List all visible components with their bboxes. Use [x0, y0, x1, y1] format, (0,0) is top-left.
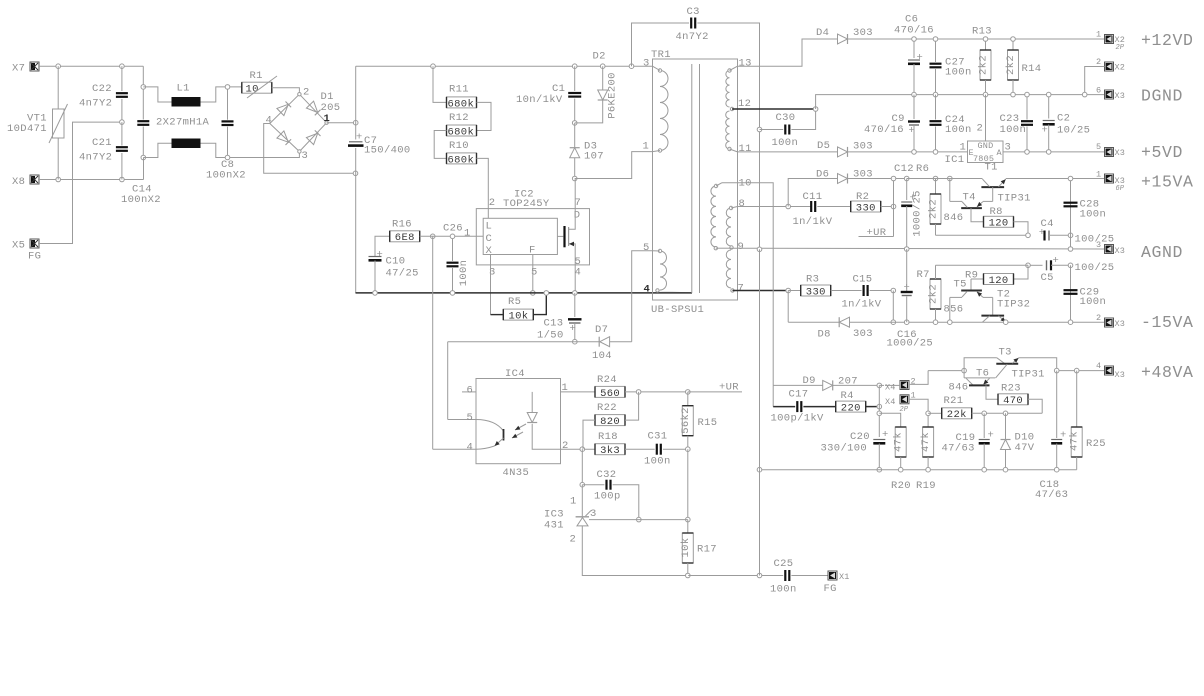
svg-text:C5: C5 — [1041, 272, 1054, 284]
svg-text:5: 5 — [531, 266, 538, 278]
node C6 bottom — [912, 92, 917, 97]
node C27 top — [933, 37, 938, 42]
svg-text:3: 3 — [1096, 240, 1101, 250]
TR1 secondary 13-12 — [726, 58, 752, 111]
svg-text:C31: C31 — [648, 431, 668, 443]
diode D4 — [816, 27, 873, 44]
svg-text:6E8: 6E8 — [395, 232, 415, 244]
connector X3 pin1 +15VA — [1096, 170, 1194, 194]
IC4 pin5 label — [467, 412, 474, 424]
diode D5 — [817, 140, 873, 157]
svg-text:47k: 47k — [893, 432, 905, 452]
node C15 out — [891, 288, 896, 324]
resistor R6 — [928, 194, 942, 235]
wire D4 to +12V rail — [848, 38, 1105, 40]
T4 emitter to R8 — [971, 208, 984, 222]
svg-text:X4: X4 — [885, 397, 896, 407]
wire R10 to IC2 pin2 — [477, 158, 489, 208]
capacitor C29 — [1064, 287, 1107, 309]
svg-text:X3: X3 — [1115, 370, 1126, 380]
T3 base vertical — [996, 364, 1008, 378]
capacitor C15 — [831, 274, 894, 311]
connector X2 pin1 +12VD — [1096, 30, 1194, 53]
svg-text:1: 1 — [1096, 170, 1101, 180]
optocoupler IC4 box — [476, 368, 561, 479]
diode D3 — [570, 123, 604, 179]
diode D9 — [773, 375, 879, 390]
wire D8 bypass — [788, 291, 839, 323]
svg-text:R17: R17 — [697, 544, 717, 556]
wire TR1 pin4 to return (dark) — [658, 291, 693, 293]
bottom rail — [688, 573, 783, 578]
svg-text:8: 8 — [739, 198, 746, 210]
svg-text:C2: C2 — [1057, 113, 1070, 125]
wire R23 out — [1028, 399, 1042, 413]
resistor R15 — [680, 392, 718, 452]
node R13 top — [983, 37, 988, 42]
capacitor C22 — [79, 66, 128, 122]
node R4 out — [877, 404, 882, 409]
svg-text:1: 1 — [464, 228, 471, 240]
node HV rail R11 — [431, 64, 436, 69]
svg-text:5: 5 — [467, 412, 474, 424]
svg-text:47/25: 47/25 — [386, 268, 419, 280]
svg-text:100n: 100n — [644, 456, 671, 468]
svg-text:AGND: AGND — [1141, 243, 1183, 262]
wire D6 bypass — [788, 179, 837, 207]
wire X7 to filter — [39, 65, 143, 67]
48V ground rail — [757, 467, 1076, 472]
svg-text:820: 820 — [600, 416, 620, 428]
wire X5 to C22/C21 midpoint — [38, 122, 122, 243]
resistor R16 — [375, 219, 420, 257]
svg-text:D9: D9 — [803, 375, 816, 387]
svg-text:R21: R21 — [944, 395, 964, 407]
AGND vertical lower — [759, 249, 761, 575]
HV top rail — [356, 65, 653, 67]
regulator IC1 7805 — [945, 95, 1012, 166]
inductor L1 upper winding — [172, 97, 201, 107]
svg-text:C30: C30 — [776, 112, 796, 124]
label L1 — [156, 83, 210, 129]
DGND rail from pin12 — [816, 95, 1105, 109]
svg-text:100n: 100n — [1080, 296, 1107, 308]
svg-text:47/63: 47/63 — [1035, 489, 1068, 501]
svg-text:X8: X8 — [12, 176, 25, 188]
svg-text:R8: R8 — [990, 206, 1003, 218]
node C26 top — [450, 234, 455, 239]
capacitor C23 — [1000, 92, 1034, 154]
svg-text:GND: GND — [978, 141, 994, 151]
svg-text:220: 220 — [841, 403, 861, 415]
svg-text:856: 856 — [944, 304, 964, 316]
capacitor C2 — [1042, 92, 1091, 154]
IC2 pin X stub — [490, 255, 492, 315]
IC2 pin2 stub inside — [487, 209, 489, 219]
svg-text:R25: R25 — [1086, 438, 1106, 450]
svg-text:4n7Y2: 4n7Y2 — [79, 98, 112, 110]
transistor T4 846 — [944, 179, 993, 225]
diode D8 — [818, 317, 873, 340]
svg-text:1n/1kV: 1n/1kV — [793, 216, 833, 228]
IC3 ref wire — [589, 519, 688, 521]
wire R6 to C4 node — [936, 234, 1029, 236]
connector X3 pin5 +5VD — [1096, 142, 1183, 162]
transistor T3 TIP31 — [964, 347, 1057, 381]
svg-text:+15VA: +15VA — [1141, 173, 1194, 192]
wire R2 out — [881, 176, 896, 209]
svg-text:+UR: +UR — [719, 382, 739, 394]
svg-text:X3: X3 — [1115, 319, 1126, 329]
svg-text:100nX2: 100nX2 — [121, 194, 161, 206]
connector X1 FG — [824, 571, 850, 595]
vertical D9 node — [878, 385, 880, 437]
svg-text:C26: C26 — [443, 223, 463, 235]
node C4 right — [1068, 233, 1073, 238]
svg-text:10n/1kV: 10n/1kV — [516, 94, 563, 106]
IC4 phototransistor — [476, 420, 504, 450]
T6 emitter to R23 — [986, 385, 998, 399]
capacitor C3 — [632, 6, 760, 130]
svg-text:100n: 100n — [772, 137, 799, 149]
wire IC4 pin5 link — [448, 342, 575, 420]
svg-text:X7: X7 — [12, 63, 25, 75]
svg-text:6P: 6P — [1116, 185, 1125, 193]
resistor R11 — [433, 66, 477, 110]
svg-text:R1: R1 — [250, 70, 263, 82]
svg-text:2k2: 2k2 — [978, 55, 990, 75]
wire L1 lower to bridge — [201, 143, 300, 157]
svg-text:104: 104 — [592, 350, 612, 362]
node AGND C12 — [904, 247, 909, 286]
svg-text:846: 846 — [949, 382, 969, 394]
svg-text:470/16: 470/16 — [894, 25, 934, 37]
svg-text:T5: T5 — [954, 279, 967, 291]
node C12 top — [904, 176, 909, 181]
IC2 pin5/4 source stub — [574, 257, 576, 293]
svg-text:+: + — [1042, 125, 1049, 137]
svg-text:100n: 100n — [945, 124, 972, 136]
svg-text:3: 3 — [643, 58, 650, 70]
svg-text:R15: R15 — [698, 417, 718, 429]
svg-text:D8: D8 — [818, 329, 831, 341]
wire C14 top to L1 upper — [143, 87, 171, 102]
net label +UR flag — [859, 207, 894, 240]
wire R8 to C4 — [1014, 222, 1031, 238]
resistor R14 — [1005, 39, 1041, 95]
svg-text:100/25: 100/25 — [1075, 262, 1115, 274]
+48 rail left — [928, 368, 966, 373]
svg-text:+: + — [988, 430, 995, 442]
TR1 secondary 9-7 — [726, 241, 744, 295]
capacitor C14 — [121, 66, 161, 206]
wire drain to TR1 pin1 — [575, 152, 653, 179]
svg-text:R20: R20 — [891, 480, 911, 492]
wire L1 upper to R1 — [201, 87, 242, 102]
svg-text:R24: R24 — [597, 374, 617, 386]
resistor R12 link — [477, 102, 492, 130]
svg-text:120: 120 — [989, 218, 1009, 230]
IC4 led arrows — [512, 424, 526, 438]
svg-text:100n: 100n — [1080, 209, 1107, 221]
wire TR1 pin12 (dark) — [732, 107, 818, 112]
capacitor C1 — [516, 66, 581, 123]
resistor R23 — [998, 383, 1028, 408]
svg-text:2: 2 — [489, 197, 496, 209]
svg-text:47V: 47V — [1015, 442, 1035, 454]
transistor T2 TIP32 — [981, 289, 1030, 323]
svg-text:100nX2: 100nX2 — [206, 170, 246, 182]
svg-text:X3: X3 — [1115, 246, 1126, 256]
inductor L1 lower winding — [172, 139, 201, 149]
node C6 top — [912, 37, 917, 42]
svg-text:11: 11 — [739, 143, 752, 155]
svg-text:10k: 10k — [680, 538, 692, 558]
resistor R18 — [595, 431, 625, 457]
node AGND common vertical — [757, 247, 762, 252]
svg-text:4: 4 — [1096, 361, 1101, 371]
svg-text:10D471: 10D471 — [7, 123, 47, 135]
wire bridge pin1 to HV rail — [327, 120, 358, 125]
svg-text:107: 107 — [584, 151, 604, 163]
resistor R9 — [965, 265, 1028, 287]
node on X7 wire at VT1 — [56, 64, 61, 69]
resistor R5 — [491, 291, 549, 323]
svg-text:330: 330 — [806, 286, 826, 298]
capacitor C4 — [1039, 218, 1115, 246]
capacitor C32 — [580, 449, 641, 522]
capacitor C21 — [79, 122, 128, 179]
svg-text:1000/25: 1000/25 — [912, 190, 924, 237]
svg-text:D4: D4 — [816, 27, 829, 39]
svg-text:150/400: 150/400 — [364, 145, 411, 157]
wire pinC down to opto — [432, 236, 434, 449]
svg-text:T1: T1 — [985, 162, 998, 174]
node on X8 wire at VT1 — [56, 177, 61, 182]
svg-text:R10: R10 — [449, 140, 469, 152]
node drain — [572, 176, 577, 181]
node HV rail C3 — [629, 64, 634, 69]
wire D7 to TR1 pin5 — [632, 251, 653, 342]
connector X3 pin2 -15VA — [1096, 313, 1194, 332]
node R13 bottom — [983, 92, 988, 97]
svg-text:2P: 2P — [1116, 44, 1125, 52]
node C20 gnd — [877, 467, 882, 472]
node HV rail D2 — [600, 64, 605, 69]
svg-text:R9: R9 — [965, 270, 978, 282]
bridge D1 diode 2-1 — [306, 101, 320, 115]
transistor T1 TIP31 — [981, 162, 1030, 205]
IC2 inner box — [483, 218, 557, 254]
resistor R10 — [447, 140, 477, 166]
svg-text:C25: C25 — [774, 558, 794, 570]
TR1 core — [692, 64, 700, 293]
svg-text:IC4: IC4 — [505, 368, 525, 380]
svg-text:C10: C10 — [386, 256, 406, 268]
node R14 top — [1011, 37, 1016, 42]
svg-text:680k: 680k — [448, 126, 475, 138]
svg-text:4: 4 — [644, 284, 651, 296]
IC4 pin1 wire — [561, 382, 596, 394]
node T2 emitter — [1003, 320, 1008, 325]
resistor R22 — [583, 392, 639, 449]
svg-text:TOP245Y: TOP245Y — [503, 198, 550, 210]
svg-text:X5: X5 — [12, 240, 25, 252]
svg-text:+5VD: +5VD — [1141, 143, 1183, 162]
svg-text:100n: 100n — [945, 67, 972, 79]
varistor VT1 — [7, 66, 68, 179]
svg-text:1: 1 — [562, 382, 569, 394]
bridge rectifier D1 outline — [270, 93, 329, 154]
-15 output vertical — [1068, 265, 1073, 324]
svg-text:13: 13 — [739, 58, 752, 70]
resistor R13 — [972, 26, 992, 95]
svg-text:100/25: 100/25 — [1075, 234, 1115, 246]
svg-text:+: + — [917, 52, 924, 64]
resistor R20 — [891, 427, 911, 492]
svg-text:C32: C32 — [597, 469, 617, 481]
svg-text:1n/1kV: 1n/1kV — [842, 299, 882, 311]
capacitor C18 — [1035, 371, 1068, 501]
IC3 anode wire — [582, 526, 688, 576]
op-amp IC2 TOP245Y outer box — [476, 209, 589, 265]
svg-text:470/16: 470/16 — [864, 124, 904, 136]
IC2 labels — [464, 189, 581, 279]
svg-text:470: 470 — [1003, 395, 1023, 407]
node R24 out — [625, 390, 690, 395]
node C1 bottom — [572, 121, 577, 126]
svg-text:2k2: 2k2 — [928, 199, 940, 219]
svg-text:560: 560 — [600, 388, 620, 400]
svg-text:846: 846 — [944, 212, 964, 224]
svg-text:R18: R18 — [598, 431, 618, 443]
svg-text:R12: R12 — [449, 112, 469, 124]
IC4 pin4 wire — [433, 442, 476, 454]
resistor R17 — [680, 520, 717, 578]
svg-text:C22: C22 — [92, 83, 112, 95]
svg-text:+: + — [570, 323, 577, 335]
svg-text:R2: R2 — [856, 191, 869, 203]
capacitor C6 — [894, 14, 934, 95]
node C16 bottom — [904, 320, 909, 325]
svg-text:47k: 47k — [920, 432, 932, 452]
IC2 pin C stub — [461, 235, 483, 237]
IC4 pin6 stub — [462, 385, 476, 397]
capacitor C8 — [206, 89, 246, 182]
capacitor C28 — [1064, 199, 1107, 221]
node C13 bottom / D7 — [573, 339, 578, 344]
node C27 bottom — [933, 92, 938, 97]
node D9 out — [877, 383, 882, 388]
svg-text:L: L — [486, 221, 493, 233]
svg-text:R7: R7 — [917, 269, 930, 281]
T6 base wire — [879, 384, 884, 386]
capacitor C12 — [894, 163, 929, 249]
connector X3 pin4 +48VA — [1096, 361, 1194, 382]
capacitor C27 — [930, 39, 972, 95]
capacitor C13 — [537, 293, 582, 342]
AGND rail — [716, 247, 1105, 250]
svg-text:5: 5 — [1096, 142, 1101, 152]
resistor R4 — [836, 390, 880, 415]
svg-text:D7: D7 — [595, 324, 608, 336]
svg-text:1/50: 1/50 — [537, 330, 564, 342]
svg-text:+: + — [882, 429, 889, 441]
svg-text:TIP32: TIP32 — [997, 299, 1030, 311]
wire R15 to ref — [686, 449, 691, 522]
svg-text:5: 5 — [643, 242, 650, 254]
svg-text:2k2: 2k2 — [1005, 55, 1017, 75]
TR1 primary lower winding — [643, 242, 667, 296]
diode D7 — [575, 324, 632, 362]
svg-text:4n7Y2: 4n7Y2 — [79, 152, 112, 164]
+15 rail segment — [907, 178, 1105, 180]
node T5 bottom — [948, 320, 953, 325]
svg-text:FG: FG — [824, 583, 837, 595]
node R6 top — [933, 176, 938, 194]
svg-text:+: + — [377, 249, 384, 261]
bridge D1 diode 3-1 — [306, 130, 320, 144]
capacitor C31 — [625, 431, 688, 468]
svg-text:1: 1 — [643, 141, 650, 153]
svg-text:R22: R22 — [597, 402, 617, 414]
svg-text:303: 303 — [853, 328, 873, 340]
labels D6 row — [816, 168, 873, 180]
node R14 bottom — [1011, 92, 1016, 97]
svg-text:R6: R6 — [916, 163, 929, 175]
capacitor C20 — [821, 429, 889, 470]
wire C14 bottom to L1 lower — [143, 143, 171, 179]
svg-text:22k: 22k — [947, 409, 967, 421]
svg-text:C17: C17 — [789, 389, 809, 401]
shunt regulator IC3 431 — [544, 485, 597, 546]
node on X8 wire at C21 — [120, 177, 125, 182]
transistor T6 846 — [949, 368, 996, 394]
svg-text:120: 120 — [989, 275, 1009, 287]
node AGND C5 — [1068, 247, 1073, 252]
wire R21 out — [972, 411, 1042, 416]
capacitor C30 — [760, 109, 816, 149]
svg-text:1000/25: 1000/25 — [887, 338, 934, 350]
capacitor C17 line (dark) — [771, 385, 836, 424]
svg-text:FG: FG — [28, 251, 41, 263]
node C9 bottom — [912, 150, 917, 155]
resistor R24 — [595, 374, 625, 400]
node on X7 wire at C22 — [120, 64, 125, 69]
TR1 secondary 10-9 — [711, 178, 752, 250]
wire TR1 pin10 down — [722, 183, 773, 386]
svg-text:6: 6 — [467, 385, 474, 397]
+15 rail — [848, 178, 907, 180]
svg-text:R5: R5 — [508, 296, 521, 308]
IC2 pin F stub — [531, 255, 536, 296]
wire D6 to C12 — [848, 178, 907, 180]
svg-text:D2: D2 — [593, 51, 606, 63]
secondary common vertical — [759, 130, 761, 250]
svg-text:C21: C21 — [92, 137, 112, 149]
node R7 bottom — [933, 320, 938, 325]
wire R1 to bridge pin2 — [272, 88, 300, 92]
wire TR1 pin8 to C11 — [738, 204, 812, 209]
wire D5 to IC1 — [848, 151, 968, 153]
svg-text:D5: D5 — [817, 140, 830, 152]
resistor R7 — [917, 265, 942, 322]
svg-text:IC1: IC1 — [945, 154, 965, 166]
node R20 branch — [877, 411, 901, 427]
svg-text:2: 2 — [1096, 57, 1101, 67]
resistor R21 — [928, 395, 972, 421]
svg-text:UB-SPSU1: UB-SPSU1 — [651, 304, 704, 316]
